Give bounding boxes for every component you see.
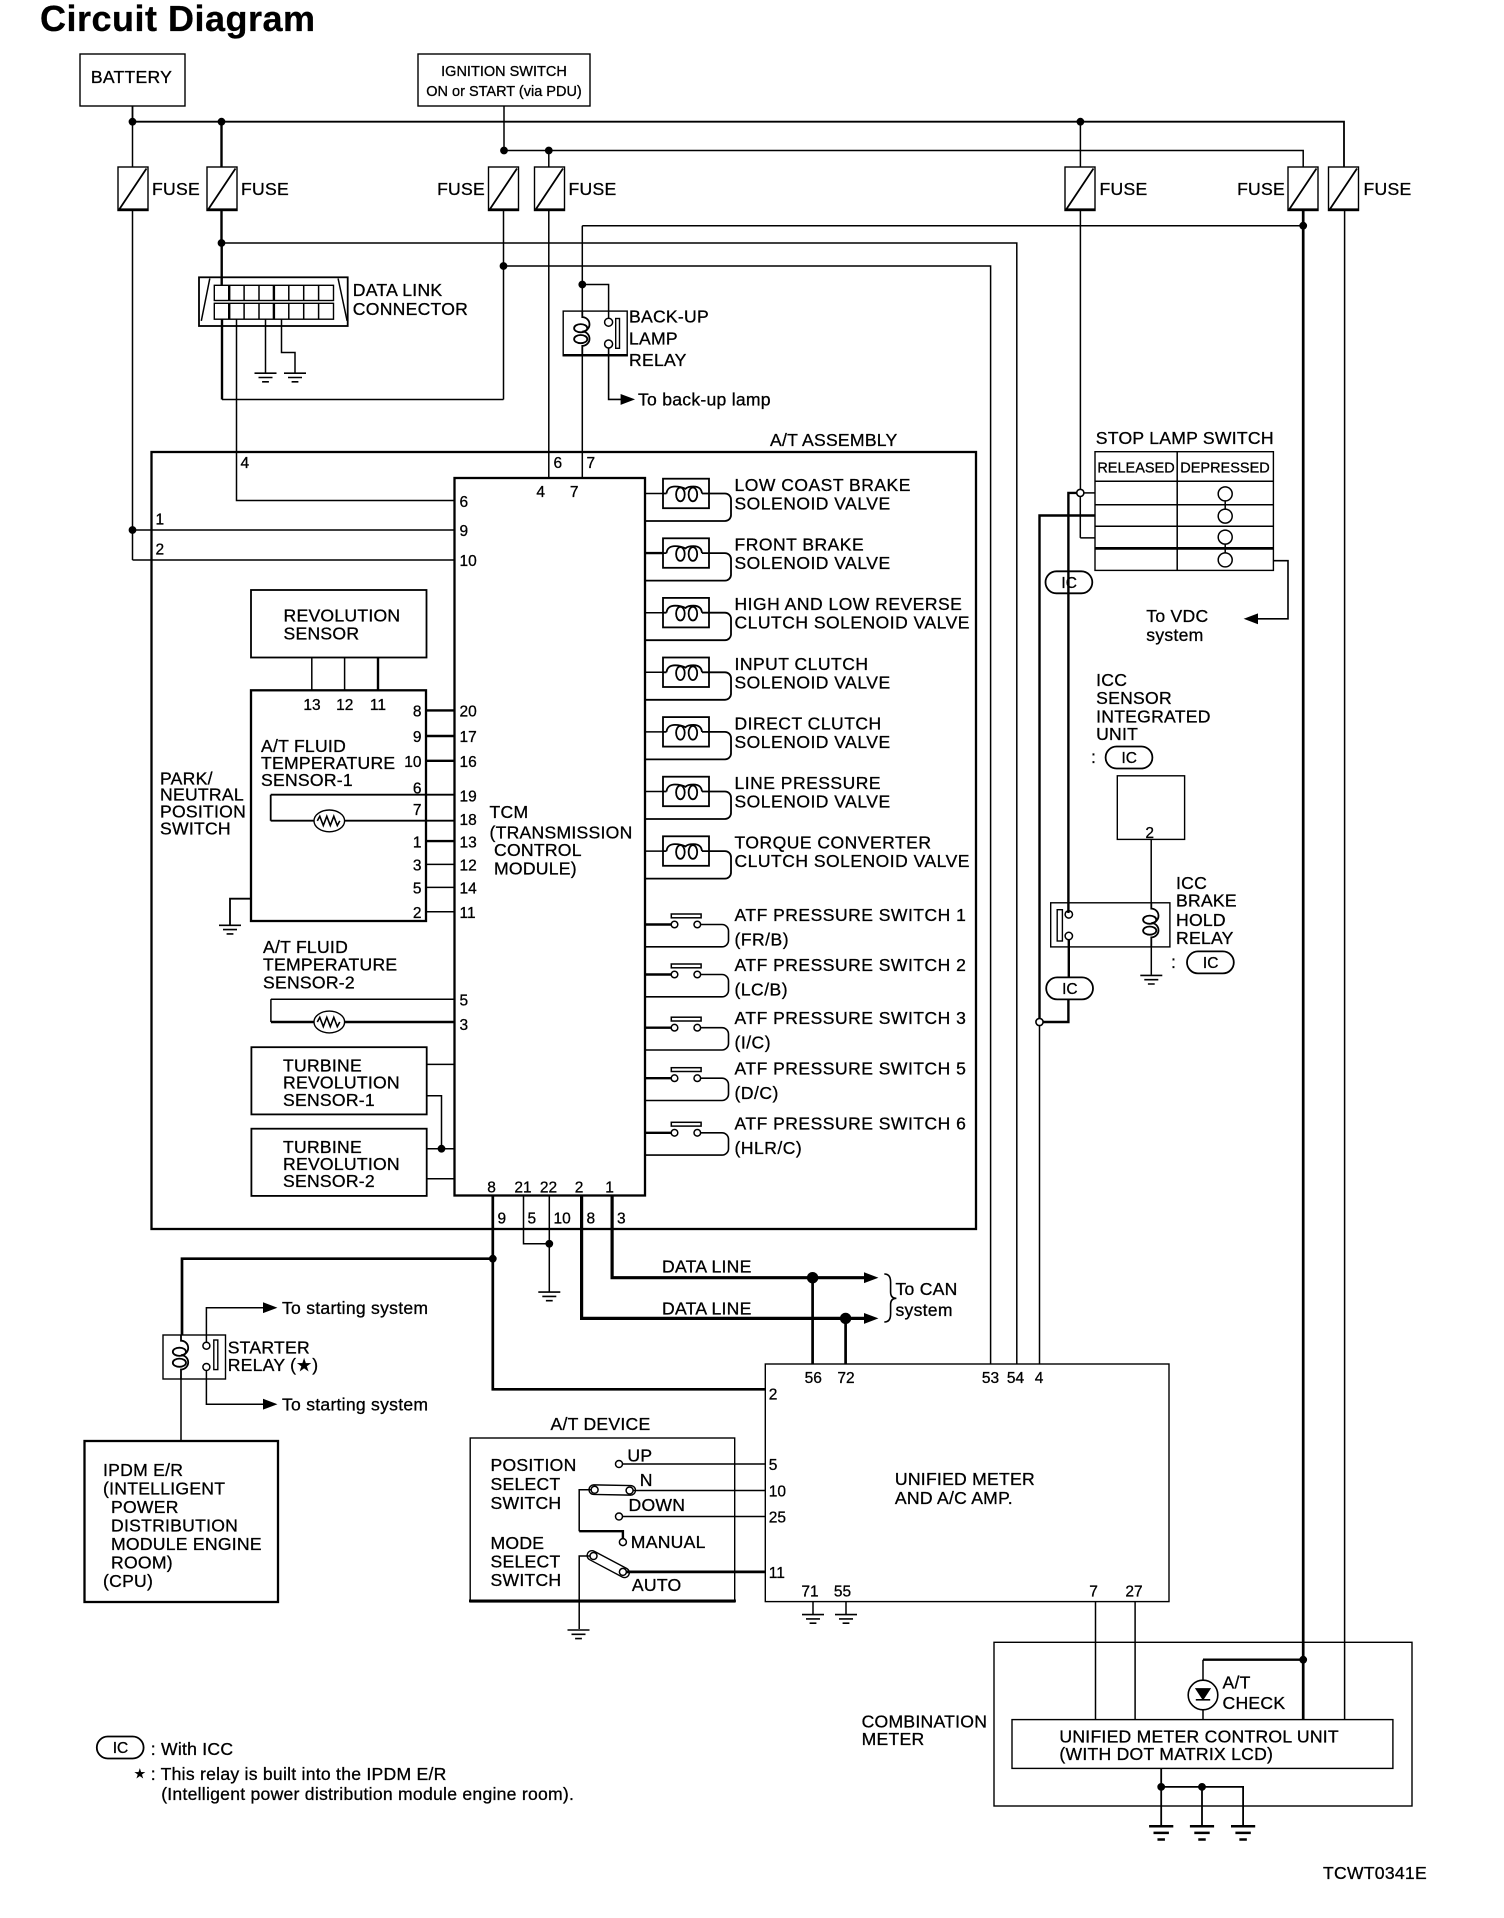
wire stop lamp row2 thick bbox=[1040, 516, 1096, 1019]
ground ICC relay bbox=[1140, 975, 1162, 984]
junction DLC top bbox=[218, 240, 225, 247]
wire UP to meter pin5 bbox=[623, 1463, 766, 1465]
wire node2 to TCM pin10 bbox=[133, 559, 455, 561]
wire DLC loop horizontal bbox=[222, 399, 504, 401]
ATF pressure switch 6 bbox=[646, 1113, 967, 1158]
ground mode switch bbox=[568, 1630, 590, 1639]
svg-text:FUSE: FUSE bbox=[437, 179, 485, 199]
junction fuse5 tap bbox=[1077, 118, 1084, 125]
svg-text:11: 11 bbox=[370, 697, 386, 714]
legend IC oval bbox=[97, 1737, 234, 1760]
wire meter pin72 bbox=[844, 1318, 847, 1364]
junction fuse2 tap bbox=[218, 118, 225, 125]
svg-text:SELECT: SELECT bbox=[491, 1552, 561, 1572]
svg-text:DATA LINK: DATA LINK bbox=[353, 280, 443, 300]
svg-text:POWER: POWER bbox=[111, 1497, 179, 1517]
svg-text:POSITION: POSITION bbox=[491, 1455, 577, 1475]
wire AUTO to meter pin11 bbox=[626, 1571, 765, 1574]
svg-text:(CPU): (CPU) bbox=[103, 1571, 153, 1591]
wire PNP pin1 to TCM13 bbox=[426, 840, 455, 842]
svg-text:14: 14 bbox=[460, 881, 478, 898]
svg-text:SOLENOID VALVE: SOLENOID VALVE bbox=[735, 672, 891, 692]
wire IC to junction circle bbox=[1043, 999, 1068, 1022]
position select switch N arm bbox=[589, 1470, 653, 1495]
arrow CAN 2 bbox=[865, 1314, 878, 1323]
stop lamp contact links bbox=[1224, 501, 1226, 553]
wire TCM pin21 bbox=[524, 1196, 550, 1244]
svg-text:IPDM E/R: IPDM E/R bbox=[103, 1460, 183, 1480]
svg-text:(INTELLIGENT: (INTELLIGENT bbox=[103, 1479, 225, 1499]
wire battery bus bbox=[133, 106, 1345, 167]
wire DLC ground loop bbox=[221, 319, 223, 399]
wire A/T check branch bbox=[1203, 1658, 1303, 1660]
ATF pressure switch 3 bbox=[646, 1008, 967, 1053]
svg-text:SENSOR: SENSOR bbox=[1096, 688, 1172, 708]
svg-text:CHECK: CHECK bbox=[1223, 1693, 1286, 1713]
wire to meter pin4 bbox=[1039, 1026, 1041, 1364]
label to VDC system bbox=[1146, 606, 1208, 645]
svg-text:ATF PRESSURE SWITCH 3: ATF PRESSURE SWITCH 3 bbox=[735, 1008, 967, 1028]
wire starter relay bottom contact bbox=[206, 1371, 264, 1405]
svg-text:10: 10 bbox=[554, 1211, 572, 1228]
position select switch UP contact bbox=[616, 1446, 653, 1468]
svg-text:AUTO: AUTO bbox=[632, 1575, 682, 1595]
svg-text:ROOM): ROOM) bbox=[111, 1553, 173, 1573]
wire N to meter pin10 bbox=[633, 1490, 765, 1492]
solenoid L5 direct clutch bbox=[646, 713, 891, 759]
svg-text:4: 4 bbox=[1035, 1370, 1044, 1387]
fuse F3 bbox=[437, 167, 519, 211]
svg-text:11: 11 bbox=[769, 1565, 785, 1582]
back-up lamp relay K1 bbox=[563, 307, 709, 371]
svg-text:20: 20 bbox=[460, 704, 478, 721]
ICC brake hold relay K2 bbox=[1051, 873, 1237, 948]
wire PNP pin2 to TCM11 bbox=[426, 911, 455, 913]
svg-text:1: 1 bbox=[605, 1180, 614, 1197]
svg-text:10: 10 bbox=[769, 1484, 787, 1501]
svg-text:SOLENOID VALVE: SOLENOID VALVE bbox=[735, 732, 891, 752]
svg-text:N: N bbox=[640, 1470, 653, 1490]
svg-text:UP: UP bbox=[627, 1446, 652, 1466]
solenoid L2 front brake bbox=[646, 535, 891, 581]
svg-text:9: 9 bbox=[413, 729, 422, 746]
junction data line 56 bbox=[807, 1273, 817, 1283]
svg-text:3: 3 bbox=[413, 858, 422, 875]
svg-text:To CAN: To CAN bbox=[896, 1279, 958, 1299]
thermistor RT1 bbox=[314, 810, 345, 832]
fuse F5 bbox=[1065, 167, 1148, 211]
svg-text::: : bbox=[1091, 747, 1096, 767]
wire TCM pin22 ground bbox=[548, 1196, 550, 1292]
park/neutral position switch box SW2 bbox=[160, 690, 426, 921]
svg-text:A/T DEVICE: A/T DEVICE bbox=[551, 1414, 651, 1434]
svg-text:To starting system: To starting system bbox=[282, 1298, 428, 1318]
svg-text:12: 12 bbox=[460, 858, 477, 875]
ground TCM pin22 bbox=[538, 1292, 560, 1301]
svg-text:HOLD: HOLD bbox=[1176, 910, 1226, 930]
wire TCM pin8 to meter pin2 bbox=[493, 1196, 766, 1390]
junction A/T check bbox=[1300, 1656, 1307, 1663]
svg-text:MANUAL: MANUAL bbox=[631, 1532, 706, 1552]
wire PNP pin9 to TCM17 bbox=[426, 735, 455, 737]
wire ICC relay coil ground bbox=[1150, 947, 1152, 975]
svg-text:ATF PRESSURE SWITCH 5: ATF PRESSURE SWITCH 5 bbox=[735, 1059, 967, 1079]
svg-text:UNIT: UNIT bbox=[1096, 724, 1138, 744]
svg-text:system: system bbox=[896, 1300, 953, 1320]
wire ignition feed bbox=[504, 106, 1303, 167]
svg-text:DISTRIBUTION: DISTRIBUTION bbox=[111, 1516, 238, 1536]
svg-text:4: 4 bbox=[536, 484, 545, 501]
svg-text:2: 2 bbox=[1145, 825, 1154, 842]
wire stop lamp to IC drop bbox=[1068, 493, 1076, 913]
IC oval 2 bbox=[1046, 977, 1093, 999]
svg-text:SENSOR-1: SENSOR-1 bbox=[261, 770, 353, 790]
svg-text:ATF PRESSURE SWITCH 1: ATF PRESSURE SWITCH 1 bbox=[735, 905, 967, 925]
wire VDC hook bbox=[1247, 561, 1288, 619]
connector circle meter pin4 bbox=[1036, 1018, 1043, 1025]
svg-text:8: 8 bbox=[413, 704, 422, 721]
fuse F2 bbox=[207, 167, 289, 211]
solenoid L7 torque converter clutch bbox=[646, 833, 970, 879]
svg-text:RELEASED: RELEASED bbox=[1097, 461, 1174, 477]
junction UMCU ground 1 bbox=[1158, 1784, 1165, 1791]
svg-text:ON or START (via PDU): ON or START (via PDU) bbox=[426, 84, 582, 100]
solenoid L6 line pressure bbox=[646, 773, 891, 819]
svg-text:SENSOR-1: SENSOR-1 bbox=[283, 1090, 375, 1110]
svg-text:56: 56 bbox=[805, 1370, 822, 1387]
ground DLC pin3 bbox=[255, 373, 277, 382]
wire meter pin56 bbox=[811, 1278, 814, 1364]
svg-text:7: 7 bbox=[570, 484, 579, 501]
svg-text:1: 1 bbox=[156, 512, 165, 529]
svg-text:5: 5 bbox=[460, 993, 469, 1010]
svg-text:8: 8 bbox=[587, 1211, 596, 1228]
wire position switch common bbox=[579, 1490, 591, 1531]
wire net y266 to meter pin53 bbox=[504, 266, 991, 1364]
svg-text:(I/C): (I/C) bbox=[735, 1033, 772, 1053]
ICC unit IC legend bbox=[1091, 747, 1152, 769]
svg-text:13: 13 bbox=[303, 697, 320, 714]
svg-text:(D/C): (D/C) bbox=[735, 1083, 779, 1103]
wire mode switch common to ground bbox=[579, 1556, 590, 1629]
svg-text:A/T ASSEMBLY: A/T ASSEMBLY bbox=[770, 430, 898, 450]
ground UMCU 1 bbox=[1149, 1826, 1173, 1839]
wire fuse6 to UMCU bbox=[1302, 1660, 1305, 1720]
svg-text:10: 10 bbox=[404, 754, 422, 771]
svg-text:DATA LINE: DATA LINE bbox=[662, 1256, 752, 1276]
stop lamp switch table bbox=[1095, 452, 1273, 571]
svg-text:FRONT BRAKE: FRONT BRAKE bbox=[735, 535, 865, 555]
svg-text:SELECT: SELECT bbox=[491, 1474, 561, 1494]
wire stop lamp row3 bbox=[1080, 497, 1095, 538]
svg-text:7: 7 bbox=[587, 455, 596, 472]
svg-text:RELAY: RELAY bbox=[629, 350, 687, 370]
svg-text:27: 27 bbox=[1125, 1584, 1142, 1601]
wire fuse1 drop bbox=[132, 122, 134, 167]
A/T assembly box bbox=[152, 430, 977, 1229]
ATF pressure switch 5 bbox=[646, 1059, 967, 1104]
svg-text:ATF PRESSURE SWITCH 6: ATF PRESSURE SWITCH 6 bbox=[735, 1113, 967, 1133]
wire DLC pin4 ground lead bbox=[282, 319, 296, 372]
wire to back-up lamp bbox=[609, 348, 621, 399]
wire revolution sensor pin13 bbox=[311, 658, 313, 691]
wire net y243 to meter pin54 bbox=[222, 243, 1017, 1364]
mode select switch arm bbox=[585, 1549, 681, 1595]
svg-text:8: 8 bbox=[487, 1180, 496, 1197]
svg-text:17: 17 bbox=[460, 729, 477, 746]
wire turbine1 pin b bbox=[427, 1096, 442, 1149]
svg-text:TEMPERATURE: TEMPERATURE bbox=[263, 955, 397, 975]
starter relay K3 bbox=[163, 1335, 318, 1380]
wire backup relay feed bbox=[582, 226, 608, 319]
unified meter and A/C amp box U3 bbox=[765, 1364, 1169, 1602]
wire fuse4 to TCM pin4 bbox=[548, 211, 550, 479]
wire meter pin55 ground bbox=[845, 1602, 847, 1614]
solenoid L4 input clutch bbox=[646, 654, 891, 700]
wire UMCU ground bus bbox=[1161, 1768, 1243, 1826]
junction fuse3 tap bbox=[501, 147, 508, 154]
wire fuse7 drop bbox=[1344, 211, 1346, 1720]
ATF pressure switch 1 bbox=[646, 905, 967, 950]
wire turbine2 pin b bbox=[427, 1178, 455, 1180]
junction node1 bbox=[129, 527, 136, 534]
wire data line 1 CAN-H bbox=[582, 1196, 864, 1319]
svg-text:6: 6 bbox=[554, 455, 563, 472]
svg-text:CONTROL: CONTROL bbox=[494, 840, 582, 860]
svg-text:BACK-UP: BACK-UP bbox=[629, 307, 709, 327]
solenoid L3 high and low reverse clutch bbox=[646, 594, 970, 640]
svg-text:(WITH DOT MATRIX LCD): (WITH DOT MATRIX LCD) bbox=[1059, 1744, 1273, 1764]
a/t fluid temperature sensor-2 loop bbox=[263, 937, 455, 1022]
wire fuse6 main drop bbox=[1302, 211, 1305, 1660]
wire DOWN to meter pin25 bbox=[623, 1516, 766, 1518]
wire node1 to TCM pin9 bbox=[133, 529, 455, 531]
svg-text:REVOLUTION: REVOLUTION bbox=[284, 606, 401, 626]
svg-text:FUSE: FUSE bbox=[241, 179, 289, 199]
position select switch MANUAL contact bbox=[619, 1532, 705, 1552]
svg-text:21: 21 bbox=[514, 1180, 531, 1197]
IC oval 1 bbox=[1046, 571, 1093, 593]
label to CAN system bbox=[896, 1279, 958, 1320]
junction fuse6 y226 bbox=[1300, 222, 1307, 229]
wire fuse1 to node1 bbox=[132, 211, 134, 561]
svg-text:RELAY: RELAY bbox=[1176, 928, 1234, 948]
fuse F1 bbox=[118, 167, 200, 211]
svg-text:2: 2 bbox=[413, 905, 422, 922]
position select switch DOWN contact bbox=[616, 1495, 686, 1520]
svg-text:HIGH AND LOW REVERSE: HIGH AND LOW REVERSE bbox=[735, 594, 963, 614]
wire fuse3 down bbox=[503, 211, 505, 400]
wire PNP pin10 to TCM16 bbox=[426, 760, 455, 762]
svg-text:16: 16 bbox=[460, 754, 477, 771]
svg-text:FUSE: FUSE bbox=[1364, 179, 1412, 199]
svg-text:5: 5 bbox=[413, 881, 422, 898]
svg-text:MODULE ENGINE: MODULE ENGINE bbox=[111, 1534, 262, 1554]
svg-text:72: 72 bbox=[837, 1370, 854, 1387]
svg-text:SWITCH: SWITCH bbox=[491, 1570, 562, 1590]
junction starter branch bbox=[489, 1255, 496, 1262]
wire PNP pin5 to TCM14 bbox=[426, 886, 455, 888]
svg-text:(Intelligent power distributio: (Intelligent power distribution module e… bbox=[161, 1784, 574, 1804]
svg-text:SOLENOID VALVE: SOLENOID VALVE bbox=[735, 792, 891, 812]
junction data line 72 bbox=[840, 1313, 850, 1323]
wire turbine2 pin a bbox=[427, 1148, 455, 1150]
turbine revolution sensor-1 B3 bbox=[251, 1047, 426, 1114]
wire stop lamp row1 bbox=[1084, 492, 1095, 494]
unified meter control unit box U4 bbox=[1012, 1720, 1393, 1769]
svg-text:FUSE: FUSE bbox=[1100, 179, 1148, 199]
wire fuse6 branch y226 bbox=[582, 225, 1303, 227]
wire ICC unit pin2 bbox=[1150, 839, 1152, 902]
svg-text:2: 2 bbox=[769, 1387, 778, 1404]
svg-text:FUSE: FUSE bbox=[569, 179, 617, 199]
ground DLC pin4 bbox=[284, 373, 306, 382]
wire PNP pin3 to TCM12 bbox=[426, 863, 455, 865]
svg-text:system: system bbox=[1146, 625, 1203, 645]
svg-text:CONNECTOR: CONNECTOR bbox=[353, 299, 468, 319]
ICC sensor integrated unit box bbox=[1117, 776, 1184, 842]
wire starter relay top contact bbox=[206, 1308, 264, 1343]
svg-text::: : bbox=[1171, 952, 1176, 972]
svg-text:TORQUE CONVERTER: TORQUE CONVERTER bbox=[735, 833, 932, 853]
svg-text:4: 4 bbox=[241, 455, 250, 472]
fuse F6 bbox=[1237, 167, 1318, 211]
wire turbine1 pin a bbox=[427, 1063, 455, 1065]
svg-text:INPUT CLUTCH: INPUT CLUTCH bbox=[735, 654, 869, 674]
arrow CAN 1 bbox=[865, 1273, 878, 1282]
svg-text:SWITCH: SWITCH bbox=[160, 819, 231, 839]
arrow to starting system 2 bbox=[264, 1400, 277, 1409]
connector circle stop lamp bbox=[1077, 489, 1084, 496]
data link connector J1 bbox=[199, 277, 468, 326]
svg-text:13: 13 bbox=[460, 835, 477, 852]
svg-text:(FR/B): (FR/B) bbox=[735, 930, 790, 950]
ICC sensor integrated unit label bbox=[1096, 670, 1211, 744]
svg-text:25: 25 bbox=[769, 1510, 786, 1527]
svg-text:FUSE: FUSE bbox=[1237, 179, 1285, 199]
junction battery bbox=[129, 118, 136, 125]
wire fuse2 to DLC bbox=[220, 211, 223, 286]
svg-text:SENSOR-2: SENSOR-2 bbox=[283, 1171, 375, 1191]
revolution sensor B2 bbox=[251, 590, 427, 658]
svg-text:TCM: TCM bbox=[490, 802, 529, 822]
arrow to back-up lamp bbox=[621, 395, 634, 404]
battery B1 bbox=[80, 54, 185, 106]
arrow to VDC bbox=[1245, 614, 1258, 623]
svg-text:MODE: MODE bbox=[491, 1533, 545, 1553]
svg-text:SWITCH: SWITCH bbox=[491, 1493, 562, 1513]
svg-text:(HLR/C): (HLR/C) bbox=[735, 1138, 803, 1158]
svg-text:2: 2 bbox=[575, 1180, 584, 1197]
svg-text:LOW COAST BRAKE: LOW COAST BRAKE bbox=[735, 475, 911, 495]
svg-text:6: 6 bbox=[413, 781, 422, 798]
wire backup relay coil to TCM pin7 bbox=[581, 356, 583, 478]
svg-text:Circuit Diagram: Circuit Diagram bbox=[40, 0, 316, 39]
svg-text:6: 6 bbox=[460, 494, 469, 511]
svg-text:9: 9 bbox=[498, 1211, 507, 1228]
svg-text:DEPRESSED: DEPRESSED bbox=[1180, 461, 1269, 477]
wire fuse5 to stop lamp switch bbox=[1079, 211, 1081, 490]
svg-text:7: 7 bbox=[1089, 1584, 1098, 1601]
junction backup relay bbox=[579, 281, 586, 288]
svg-text:DIRECT CLUTCH: DIRECT CLUTCH bbox=[735, 713, 882, 733]
wire starter relay branch bbox=[182, 1259, 493, 1335]
svg-text:: With ICC: : With ICC bbox=[151, 1739, 234, 1759]
junction UMCU ground 2 bbox=[1199, 1784, 1206, 1791]
svg-text:: This relay is built into the: : This relay is built into the IPDM E/R bbox=[151, 1764, 447, 1784]
thermistor RT2 bbox=[314, 1011, 345, 1033]
A/T device box bbox=[469, 1438, 736, 1602]
wire starter relay coil to IPDM bbox=[180, 1379, 182, 1441]
junction turbine bbox=[438, 1145, 445, 1152]
svg-text:9: 9 bbox=[460, 523, 469, 540]
svg-text:LAMP: LAMP bbox=[629, 329, 678, 349]
svg-text:MODULE): MODULE) bbox=[494, 859, 577, 879]
svg-text:7: 7 bbox=[413, 802, 422, 819]
svg-text:To VDC: To VDC bbox=[1146, 606, 1208, 626]
svg-text:UNIFIED METER: UNIFIED METER bbox=[895, 1469, 1035, 1489]
svg-text:71: 71 bbox=[801, 1584, 818, 1601]
stop lamp contact row1 bbox=[1218, 487, 1232, 501]
wire fuse2 drop bbox=[220, 122, 222, 167]
svg-text:ICC: ICC bbox=[1096, 670, 1127, 690]
IPDM E/R box U2 bbox=[85, 1441, 279, 1602]
svg-text:ATF PRESSURE SWITCH 2: ATF PRESSURE SWITCH 2 bbox=[735, 955, 967, 975]
svg-text:1: 1 bbox=[413, 835, 422, 852]
svg-text:10: 10 bbox=[460, 553, 478, 570]
svg-text:3: 3 bbox=[617, 1211, 626, 1228]
svg-text:BRAKE: BRAKE bbox=[1176, 891, 1237, 911]
svg-text:AND A/C AMP.: AND A/C AMP. bbox=[895, 1488, 1013, 1508]
svg-text:SENSOR-2: SENSOR-2 bbox=[263, 973, 355, 993]
wire meter pin7 to UMCU bbox=[1095, 1602, 1097, 1720]
svg-text:SOLENOID VALVE: SOLENOID VALVE bbox=[735, 494, 891, 514]
svg-text:IGNITION SWITCH: IGNITION SWITCH bbox=[441, 64, 567, 80]
svg-text:LINE PRESSURE: LINE PRESSURE bbox=[735, 773, 882, 793]
svg-text:To starting system: To starting system bbox=[282, 1395, 428, 1415]
wire fuse4 drop bbox=[548, 151, 550, 168]
svg-text:SENSOR: SENSOR bbox=[284, 624, 360, 644]
fuse F4 bbox=[534, 167, 616, 211]
stop lamp contact row3 bbox=[1218, 530, 1232, 544]
wire revolution sensor pin11 bbox=[377, 658, 379, 691]
wire meter pin71 ground bbox=[812, 1602, 814, 1614]
ground PNP bbox=[219, 925, 241, 934]
svg-text:★: ★ bbox=[134, 1766, 146, 1781]
turbine revolution sensor-2 B4 bbox=[251, 1129, 426, 1196]
brace to CAN system bbox=[884, 1274, 896, 1322]
combination meter box bbox=[862, 1642, 1412, 1806]
wire revolution sensor pin12 bbox=[344, 658, 346, 691]
ground UMCU 3 bbox=[1231, 1826, 1255, 1839]
svg-text:DATA LINE: DATA LINE bbox=[662, 1298, 752, 1318]
svg-text:12: 12 bbox=[336, 697, 353, 714]
svg-text:2: 2 bbox=[156, 542, 165, 559]
svg-text:19: 19 bbox=[460, 789, 477, 806]
ignition switch SW1 bbox=[418, 54, 590, 106]
svg-text:CLUTCH SOLENOID VALVE: CLUTCH SOLENOID VALVE bbox=[735, 851, 970, 871]
stop lamp contact row4 bbox=[1218, 553, 1232, 567]
arrow to starting system 1 bbox=[264, 1303, 277, 1312]
wire ICC relay contact down bbox=[1068, 940, 1070, 978]
svg-text:DOWN: DOWN bbox=[629, 1495, 686, 1515]
solenoid L1 low coast brake bbox=[646, 475, 911, 521]
svg-text:RELAY (★): RELAY (★) bbox=[228, 1355, 319, 1375]
svg-text:SOLENOID VALVE: SOLENOID VALVE bbox=[735, 553, 891, 573]
svg-text:TCWT0341E: TCWT0341E bbox=[1323, 1863, 1427, 1883]
svg-text:55: 55 bbox=[834, 1584, 851, 1601]
ground meter pin71 bbox=[802, 1615, 824, 1624]
